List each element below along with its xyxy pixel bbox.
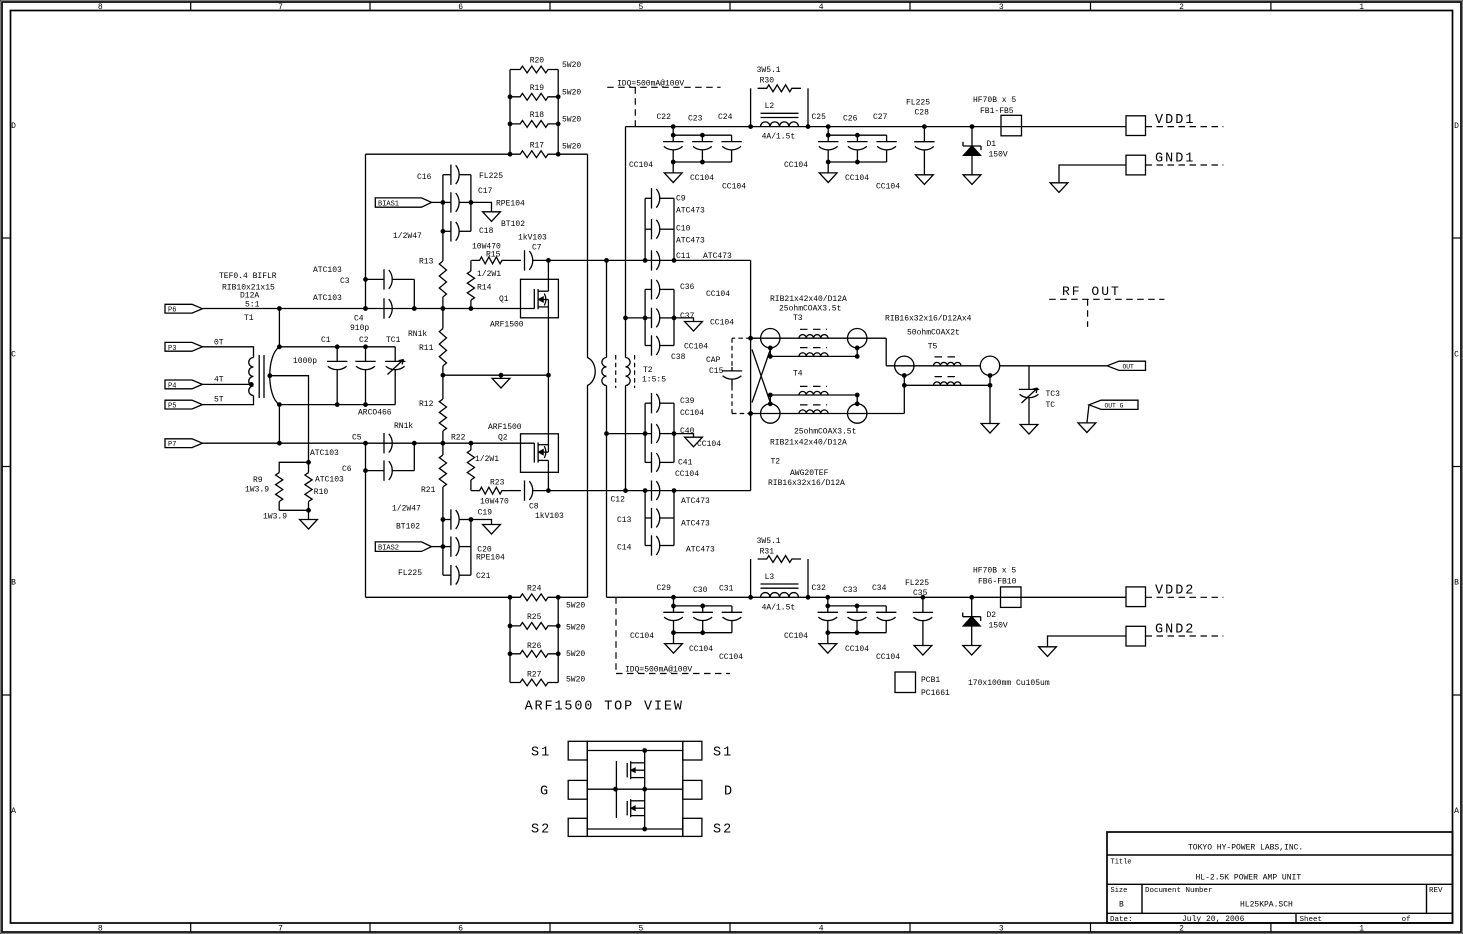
svg-text:C1: C1 [321, 336, 331, 345]
dashed VDD2 [1146, 596, 1224, 598]
transformer T3 core dashes row1 [800, 328, 827, 330]
ground below R9 R10 [308, 510, 310, 519]
svg-text:C40: C40 [680, 427, 695, 436]
svg-text:C36: C36 [680, 283, 695, 292]
inductor L2 core [761, 112, 799, 114]
svg-text:D1: D1 [987, 140, 997, 149]
svg-text:2: 2 [1179, 925, 1184, 934]
svg-text:4A/1.5t: 4A/1.5t [762, 133, 796, 142]
wire row3 to ring4 [856, 395, 858, 404]
svg-text:ATC103: ATC103 [310, 449, 339, 458]
svg-text:Size: Size [1111, 887, 1128, 895]
svg-text:8: 8 [98, 925, 103, 934]
wire GND1 to ground [1059, 165, 1126, 183]
coax ring top-left [761, 329, 780, 348]
wire topview gate bus [615, 761, 617, 818]
svg-text:TC3: TC3 [1046, 390, 1061, 399]
capacitor C9 [645, 197, 651, 199]
svg-text:C26: C26 [843, 115, 858, 124]
ground for GND2 [1039, 647, 1057, 657]
ferrite beads FB1-FB5 [1001, 115, 1022, 136]
wire cluster sub-rail top [674, 605, 732, 607]
wire ring1 to row2 [769, 348, 771, 357]
svg-text:C33: C33 [843, 586, 858, 595]
svg-text:FL225: FL225 [479, 172, 503, 181]
svg-text:C22: C22 [657, 113, 672, 122]
svg-text:Q1: Q1 [499, 295, 509, 304]
wire T1 center tap to R9 R10 [270, 376, 309, 463]
svg-text:C31: C31 [719, 585, 734, 594]
svg-text:CC104: CC104 [710, 319, 734, 328]
svg-text:25ohmCOAX3.5t: 25ohmCOAX3.5t [794, 428, 856, 437]
wire bias2 left bus [442, 520, 444, 576]
transformer T2 winding A [606, 260, 608, 357]
svg-text:C4: C4 [354, 315, 364, 324]
svg-text:C19: C19 [478, 509, 493, 518]
svg-text:CC104: CC104 [845, 174, 869, 183]
svg-text:D: D [11, 122, 16, 131]
wire C19 ground stub [471, 520, 492, 525]
resistor R17 [510, 151, 558, 158]
resistor R11 [442, 309, 444, 329]
wire feedback right vertical with T2 primary loop [588, 154, 596, 597]
svg-text:C35: C35 [913, 589, 928, 598]
svg-text:4T: 4T [214, 376, 224, 385]
transformer T5 coil top [934, 362, 962, 365]
wire R20 stack right rail [557, 70, 559, 155]
pad S1 left [568, 741, 587, 760]
wire GND2 to ground [1048, 636, 1127, 647]
svg-text:5W20: 5W20 [562, 61, 581, 70]
coax ring bottom-right [848, 404, 867, 423]
svg-text:CC104: CC104 [784, 632, 808, 641]
capacitor C18 [443, 230, 451, 232]
svg-text:ATC473: ATC473 [676, 237, 705, 246]
svg-text:0T: 0T [214, 339, 224, 348]
wire T4 out corner to T5 [885, 338, 887, 366]
resistor R23 10W470 [470, 490, 473, 492]
svg-text:D2: D2 [987, 611, 997, 620]
svg-text:R12: R12 [419, 400, 434, 409]
wire feedback left vertical upper [365, 154, 367, 279]
resistor R19 [510, 93, 558, 100]
svg-text:BT102: BT102 [501, 220, 525, 229]
wire P7 gate2 line [202, 442, 534, 444]
wire drain2 line [532, 490, 751, 492]
wire C40 ground stub [674, 434, 694, 438]
wire C39 C41 bracket right [673, 403, 675, 462]
wire P6 gate1 line [202, 308, 534, 310]
wire Q1 drain up [547, 260, 549, 279]
transistor Q1 ARF1500 [521, 279, 559, 318]
svg-text:R31: R31 [760, 547, 775, 556]
wire feedback bottom rail [366, 596, 511, 598]
ground below C32 CC104 [819, 644, 837, 654]
svg-text:C6: C6 [342, 465, 352, 474]
zone dividers bottom [190, 923, 192, 932]
svg-text:1/2W1: 1/2W1 [475, 455, 499, 464]
svg-text:Date:: Date: [1110, 916, 1133, 924]
connector P3 [165, 342, 202, 351]
pad VDD1 [1126, 116, 1146, 136]
svg-text:150V: 150V [989, 151, 1008, 160]
transistor die bottom FET [626, 801, 628, 815]
ground at C17 [483, 212, 501, 222]
svg-text:C11: C11 [676, 252, 691, 261]
node gate1 junction dots [278, 307, 282, 311]
node gate2 junction dots [278, 441, 282, 445]
resistor R25 [510, 623, 558, 630]
transformer T1 primary winding [249, 358, 254, 396]
pcb PCB1 PC1661 [895, 672, 916, 693]
dashed RF OUT underline [1049, 298, 1164, 300]
svg-text:C10: C10 [676, 225, 691, 234]
svg-text:HF70B x 5: HF70B x 5 [973, 567, 1016, 576]
svg-text:FB1-FB5: FB1-FB5 [980, 107, 1014, 116]
dashed RF OUT vertical [1087, 299, 1089, 327]
svg-text:CAP: CAP [706, 356, 721, 365]
svg-text:5:1: 5:1 [245, 300, 260, 309]
svg-text:CC104: CC104 [722, 183, 746, 192]
diode D1 zener 150V [970, 125, 974, 129]
svg-text:CC104: CC104 [719, 653, 743, 662]
svg-text:L3: L3 [765, 573, 775, 582]
capacitor C17 [443, 201, 451, 203]
svg-text:T3: T3 [793, 314, 803, 323]
svg-text:C37: C37 [680, 312, 695, 321]
svg-text:HL-2.5K POWER AMP UNIT: HL-2.5K POWER AMP UNIT [1196, 874, 1302, 883]
svg-text:C8: C8 [529, 503, 539, 512]
svg-text:B: B [1454, 579, 1459, 588]
svg-text:1/2W1: 1/2W1 [477, 270, 501, 279]
wire BIAS2 to bus [432, 546, 443, 548]
svg-text:R26: R26 [527, 642, 542, 651]
svg-text:C2: C2 [359, 336, 369, 345]
capacitor C30 CC104 [702, 606, 704, 612]
svg-text:G: G [540, 785, 550, 800]
svg-text:of: of [1402, 916, 1412, 924]
svg-text:T2: T2 [643, 366, 653, 375]
transformer T5 coil bottom [934, 382, 962, 385]
svg-text:A: A [1454, 807, 1459, 816]
svg-text:T5: T5 [928, 342, 938, 351]
svg-text:5: 5 [638, 925, 643, 934]
ferrite beads FB6-FB10 [1001, 587, 1022, 608]
connector P6 [165, 304, 202, 313]
wire bottom power rail [607, 596, 1127, 598]
capacitor C7 1kV103 [524, 250, 526, 270]
svg-text:HF70B x 5: HF70B x 5 [973, 96, 1016, 105]
svg-text:8: 8 [98, 3, 103, 12]
wire feedback left vertical lower [365, 471, 367, 598]
svg-text:REV: REV [1429, 887, 1443, 895]
capacitor C24 CC104 [731, 135, 733, 141]
capacitor C33 CC104 [856, 606, 858, 612]
wire T4 row4 [751, 413, 905, 415]
svg-text:C18: C18 [479, 227, 494, 236]
svg-text:6: 6 [458, 3, 463, 12]
wire row3 to ring3 [769, 395, 771, 404]
wire cluster sub-rail bottom [673, 161, 731, 163]
svg-text:IDQ=500mA@100V: IDQ=500mA@100V [625, 665, 692, 674]
svg-text:C24: C24 [718, 113, 733, 122]
wire cluster sub-rail top [828, 605, 886, 607]
wire T5 to OUT [1000, 365, 1107, 367]
svg-text:ATC103: ATC103 [313, 266, 342, 275]
wire OUT G to ground [1087, 405, 1089, 423]
wire C37 ground stub [674, 318, 694, 322]
svg-text:CC104: CC104 [689, 645, 713, 654]
svg-text:R11: R11 [419, 344, 434, 353]
svg-text:Sheet: Sheet [1300, 916, 1323, 924]
svg-text:P3: P3 [168, 345, 176, 353]
svg-text:5W20: 5W20 [562, 143, 581, 152]
capacitor C25 CC104 [827, 127, 829, 142]
ground below C29 CC104 [665, 644, 683, 654]
wire P5 to T1 5T tap [202, 396, 253, 405]
svg-text:CC104: CC104 [690, 174, 714, 183]
svg-text:T2: T2 [771, 457, 781, 466]
svg-text:6: 6 [458, 925, 463, 934]
resistor R18 [510, 121, 558, 128]
svg-text:R27: R27 [527, 670, 542, 679]
wire row4 up to T5 bottom [903, 376, 905, 414]
svg-text:C16: C16 [417, 173, 432, 182]
svg-text:R25: R25 [527, 613, 542, 622]
tag BIAS1 [375, 198, 431, 207]
svg-text:GND1: GND1 [1155, 152, 1195, 167]
svg-text:R18: R18 [530, 111, 545, 120]
wire R15 to C7 [510, 259, 521, 261]
svg-text:R23: R23 [490, 479, 505, 488]
svg-text:P7: P7 [168, 441, 176, 449]
capacitor C26 CC104 [856, 135, 858, 141]
transformer T5 core dashes top [935, 356, 961, 358]
svg-text:150V: 150V [989, 622, 1008, 631]
svg-text:TEF0.4 BIFLR: TEF0.4 BIFLR [219, 272, 277, 281]
ground at C37 [685, 322, 703, 332]
svg-text:1kV103: 1kV103 [535, 512, 564, 521]
svg-text:VDD1: VDD1 [1155, 113, 1195, 128]
svg-text:C23: C23 [688, 115, 703, 124]
wire C17 ground stub [471, 202, 492, 211]
wire T4 row1 [751, 337, 887, 339]
svg-text:ATC473: ATC473 [681, 520, 710, 529]
wire bias2 right bus [470, 520, 472, 576]
capacitor C20 [443, 546, 451, 548]
dashed IDQ bottom box [615, 597, 617, 673]
svg-text:C30: C30 [693, 586, 708, 595]
ground at C19 [483, 525, 501, 535]
dashed GND1 [1146, 164, 1224, 166]
svg-text:D: D [724, 785, 734, 800]
svg-text:TC: TC [1046, 401, 1056, 410]
pad GND1 [1126, 155, 1146, 175]
transformer T4 core dashes row2 [800, 347, 827, 349]
capacitor C13 [645, 517, 651, 519]
svg-text:S2: S2 [713, 823, 733, 838]
inductor L2 [761, 122, 799, 127]
svg-text:L2: L2 [765, 102, 775, 111]
capacitor C2 [365, 347, 367, 362]
transformer T1 secondary winding [270, 347, 280, 405]
wire cross X [752, 350, 770, 403]
wire Q1 source down [547, 318, 549, 375]
transformer T4 coil row3 [799, 391, 828, 395]
svg-text:BIAS2: BIAS2 [378, 545, 399, 553]
resistor R31 [750, 559, 752, 597]
svg-text:4A/1.5t: 4A/1.5t [762, 603, 796, 612]
wire R24 stack right rail [557, 597, 559, 682]
wire cluster sub-rail top [828, 134, 886, 136]
trimmer capacitor TC3 [1028, 366, 1030, 390]
pad GND2 [1126, 626, 1146, 646]
dashed GND2 [1146, 635, 1224, 637]
transformer T4 core dashes row4 [800, 404, 827, 406]
capacitor C8 1kV103 [524, 480, 526, 500]
capacitor C38 [645, 345, 651, 347]
resistor R12 [442, 375, 444, 399]
wire feedback top rail [366, 153, 511, 155]
capacitor C28 FL225 [923, 125, 927, 129]
svg-text:1:5:5: 1:5:5 [642, 376, 666, 385]
svg-text:1/2W47: 1/2W47 [393, 232, 422, 241]
ground below TC3 [1020, 425, 1038, 435]
transistor Q2 ARF1500 [521, 434, 559, 473]
wire BIAS1 to bus [432, 201, 443, 203]
capacitor C32 CC104 [827, 597, 829, 612]
capacitor C37 [626, 317, 652, 319]
svg-text:C13: C13 [617, 516, 632, 525]
svg-text:ARF1500: ARF1500 [488, 423, 522, 432]
svg-text:10W470: 10W470 [480, 498, 509, 507]
resistor R13 [439, 261, 446, 297]
transformer T3 coil row1 [799, 335, 828, 339]
svg-text:AWG20TEF: AWG20TEF [790, 469, 829, 478]
package ARF1500 body [587, 741, 683, 836]
connector P5 [165, 400, 202, 409]
resistor R24 [510, 594, 558, 601]
svg-text:R17: R17 [530, 142, 545, 151]
resistor R30 [750, 88, 752, 126]
svg-text:RN1k: RN1k [394, 422, 413, 431]
resistor R14 [467, 271, 474, 300]
svg-text:ATC103: ATC103 [315, 476, 344, 485]
svg-text:C17: C17 [478, 187, 493, 196]
svg-text:CC104: CC104 [675, 470, 699, 479]
wire C9 C11 bracket right [673, 198, 675, 260]
svg-text:RN1k: RN1k [408, 330, 427, 339]
wire P4 to T1 4T tap [202, 383, 251, 385]
tag OUT [1107, 361, 1146, 370]
svg-text:RIB21x42x40/D12A: RIB21x42x40/D12A [770, 295, 847, 304]
resistor R22 [470, 443, 472, 450]
ground on source line [500, 375, 502, 378]
wire C12 C14 bracket right [673, 491, 675, 546]
resistor R21 [442, 443, 444, 455]
svg-text:5W20: 5W20 [562, 116, 581, 125]
svg-text:R15: R15 [486, 251, 501, 260]
tag OUT G [1089, 400, 1138, 409]
pad S1 right [683, 741, 702, 760]
svg-text:5W20: 5W20 [566, 676, 585, 685]
svg-text:P4: P4 [168, 382, 176, 390]
diode D2 zener 150V [970, 595, 974, 599]
svg-text:R10: R10 [314, 488, 329, 497]
transformer T4 coil row2 [799, 353, 828, 357]
pad S2 left [568, 818, 587, 836]
wire cluster sub-rail bottom [828, 161, 886, 163]
transformer T2 core dashes [615, 355, 617, 388]
svg-text:C21: C21 [476, 572, 491, 581]
svg-text:ARF1500 TOP VIEW: ARF1500 TOP VIEW [525, 700, 684, 715]
svg-text:B: B [11, 579, 16, 588]
svg-text:C27: C27 [873, 113, 888, 122]
svg-text:ATC473: ATC473 [681, 497, 710, 506]
svg-text:CC104: CC104 [876, 183, 900, 192]
svg-text:P6: P6 [168, 307, 176, 315]
svg-text:C3: C3 [340, 277, 350, 286]
wire bias1 right bus [470, 175, 472, 232]
inductor L3 core [761, 583, 799, 585]
wire R23 to C8 [510, 490, 521, 492]
wire Q2 source up [547, 375, 549, 434]
svg-text:R21: R21 [421, 486, 436, 495]
capacitor C12 [651, 480, 653, 500]
svg-text:7: 7 [278, 3, 283, 12]
wire C12 C14 bracket left [644, 491, 646, 546]
ground for GND1 [1050, 183, 1068, 193]
svg-text:FB6-FB10: FB6-FB10 [978, 578, 1017, 587]
svg-text:5W20: 5W20 [562, 88, 581, 97]
capacitor C39 [645, 402, 651, 404]
svg-text:T1: T1 [244, 314, 254, 323]
wire source line [443, 374, 549, 376]
svg-text:OUT G: OUT G [1105, 402, 1124, 409]
svg-text:HL25KPA.SCH: HL25KPA.SCH [1240, 901, 1293, 910]
svg-text:BIAS1: BIAS1 [378, 201, 399, 209]
svg-text:2: 2 [1179, 3, 1184, 12]
ground below T5 [981, 424, 999, 434]
zone ticks right [1453, 237, 1462, 239]
svg-text:P5: P5 [168, 403, 176, 411]
svg-text:C28: C28 [915, 108, 930, 117]
svg-text:RIB21x42x40/D12A: RIB21x42x40/D12A [770, 439, 847, 448]
svg-text:ATC473: ATC473 [676, 207, 705, 216]
wire topview S2 bus [587, 828, 683, 830]
svg-text:7: 7 [278, 925, 283, 934]
svg-text:R20: R20 [530, 57, 545, 66]
svg-text:C32: C32 [812, 584, 827, 593]
svg-text:TC1: TC1 [386, 336, 401, 345]
transformer T4 core dashes row3 [800, 385, 827, 387]
wire bias1 left bus [442, 175, 444, 261]
svg-text:1kV103: 1kV103 [518, 234, 547, 243]
capacitor C6 [365, 443, 367, 470]
svg-text:D12A: D12A [240, 292, 259, 301]
wire R20 stack left rail [509, 70, 511, 155]
wire top power rail [626, 126, 1127, 128]
svg-text:C14: C14 [617, 544, 632, 553]
svg-text:ATC473: ATC473 [686, 546, 715, 555]
wire T1 secondary bottom to P7 line [278, 405, 280, 444]
svg-text:July 20, 2006: July 20, 2006 [1182, 915, 1245, 924]
svg-text:RIB16x32x16/D12A: RIB16x32x16/D12A [768, 479, 845, 488]
svg-text:R22: R22 [451, 434, 466, 443]
capacitor C14 [645, 545, 651, 547]
wire drain1 line [532, 259, 751, 261]
ground below OUT G [1078, 423, 1096, 433]
